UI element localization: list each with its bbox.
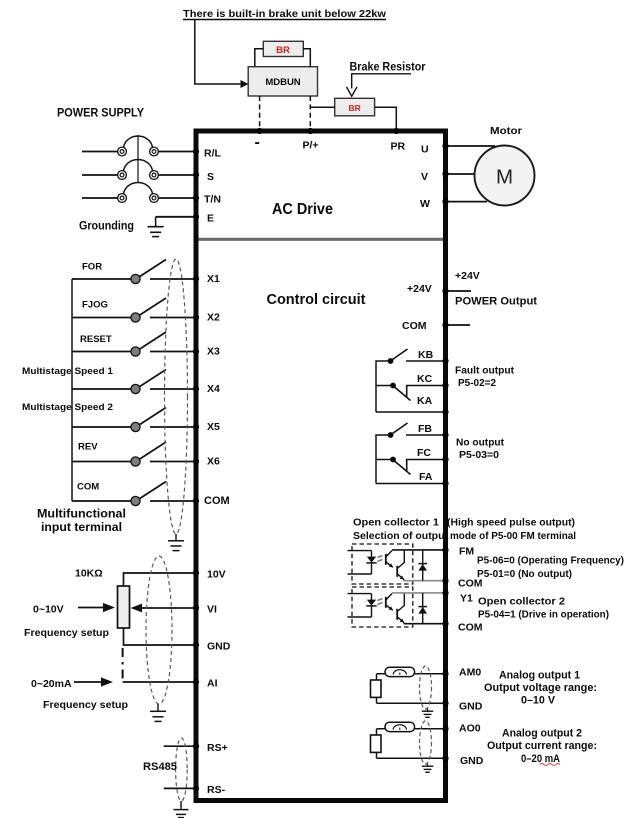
resistor BR1 (built-in brake resistor) [263, 41, 303, 56]
breaker pole 3 (T/N phase) [82, 183, 158, 203]
shield ellipse (digital input cable) [165, 259, 188, 534]
svg-text:FM: FM [459, 546, 474, 558]
ground: RS485 shield [174, 801, 189, 818]
shield ellipse (AO0 cable) [420, 721, 432, 764]
svg-text:RS485: RS485 [143, 761, 177, 773]
svg-text:T/N: T/N [204, 194, 221, 206]
terminal X1 [193, 273, 220, 285]
shield ellipse (analog input cable) [146, 556, 172, 704]
switch Multistage Speed 2 (input X5) [22, 402, 166, 432]
ground: analog input shield [150, 704, 166, 721]
svg-text:AI: AI [207, 678, 218, 690]
svg-text:VI: VI [207, 604, 217, 616]
svg-text:X1: X1 [207, 273, 220, 285]
wire: switch to terminal X3 [150, 351, 194, 353]
wire: digital input common bus [71, 279, 73, 501]
wire: breaker to R/L terminal [159, 151, 194, 153]
svg-text:PR: PR [391, 141, 406, 153]
svg-text:KA: KA [417, 395, 433, 407]
terminal R/L [193, 148, 222, 160]
svg-text:Output voltage range:: Output voltage range: [484, 682, 597, 694]
terminal KA [442, 409, 448, 415]
label: +24V POWER Output [455, 270, 537, 308]
svg-text:10KΩ: 10KΩ [75, 568, 103, 580]
meter M-AM0 [385, 667, 415, 676]
svg-text:FC: FC [417, 447, 431, 459]
svg-text:FB: FB [418, 423, 432, 435]
wire: breaker to S terminal [159, 174, 194, 176]
relay F contacts common bus [376, 435, 391, 484]
svg-text:X2: X2 [207, 311, 220, 323]
terminal RS+ [193, 742, 228, 754]
terminal GND (AM0 return) [442, 700, 448, 706]
svg-text:P5-04=1 (Drive in operation): P5-04=1 (Drive in operation) [478, 609, 609, 621]
breaker pole 1 (R/L phase) [82, 136, 158, 156]
svg-text:GND: GND [460, 755, 484, 767]
svg-text:X3: X3 [207, 345, 220, 357]
terminal FB [442, 432, 448, 438]
wire: switch to terminal X2 [150, 317, 194, 319]
wire: potentiometer bottom to GND [124, 628, 194, 645]
svg-text:X5: X5 [207, 421, 220, 433]
terminal RS- [193, 784, 226, 796]
svg-text:Analog output 2: Analog output 2 [502, 728, 582, 740]
wire: note leader arrow to MDBUN [195, 20, 249, 88]
svg-text:R/L: R/L [204, 148, 222, 160]
terminal X3 [193, 345, 220, 357]
note: built-in brake unit text [183, 8, 387, 20]
svg-text:Fault output: Fault output [455, 365, 514, 377]
resistor R-AO0 (load) [371, 735, 382, 752]
optocoupler U3 (Y1 output) [348, 587, 413, 627]
terminal COM [442, 621, 448, 627]
label: Selection of output mode of P5-00 FM terminal [353, 530, 576, 542]
wire: switch to terminal COM [150, 500, 194, 502]
node: '-' terminal dot [257, 128, 263, 134]
svg-text:FOR: FOR [82, 262, 102, 273]
label: 0~20mA with arrow [31, 677, 113, 690]
svg-text:COM: COM [458, 578, 483, 590]
svg-text:POWER SUPPLY: POWER SUPPLY [57, 108, 144, 120]
wire: U2 (FM output) collector rail to FM [392, 549, 443, 551]
label: Open collector 1 (High speed pulse output) [353, 517, 575, 529]
svg-text:Open collector 2: Open collector 2 [478, 596, 565, 608]
svg-text:KB: KB [418, 349, 434, 361]
relay contact FC (normally closed) [376, 447, 443, 475]
shield ellipse (AM0 cable) [420, 666, 432, 709]
label: Analog output 1 block [484, 670, 597, 707]
wire: switch to terminal X5 [150, 426, 194, 428]
svg-text:Multistage Speed 2: Multistage Speed 2 [22, 402, 113, 413]
terminal KB [442, 358, 448, 364]
svg-text:V: V [421, 171, 428, 183]
svg-text:Analog output 1: Analog output 1 [499, 670, 580, 682]
wire: 10V supply to potentiometer top [124, 573, 194, 586]
svg-text:0~20mA: 0~20mA [31, 678, 72, 690]
terminal T/N [193, 194, 221, 206]
wire: MDBUN top-left to BR1 [255, 49, 263, 67]
wire: MDBUN to terminal 'P/+' (dashed) [309, 96, 311, 130]
svg-text:W: W [420, 198, 430, 210]
label: Fault output P5-02=2 [455, 365, 514, 390]
wire: RS- [164, 787, 194, 789]
svg-text:P/+: P/+ [303, 140, 319, 152]
wire: MDBUN top-right to BR1 [303, 49, 310, 67]
svg-text:input terminal: input terminal [41, 522, 122, 534]
svg-text:P5-02=2: P5-02=2 [458, 377, 496, 389]
wire: U2 (FM output) emitter rail to COM [404, 580, 443, 582]
wire: MDBUN to terminal '-' (dashed) [259, 96, 261, 130]
svg-text:MDBUN: MDBUN [265, 77, 300, 88]
wire: AO0 output loop [377, 729, 444, 758]
svg-text:P5-03=0: P5-03=0 [459, 449, 499, 461]
wire: U3 (Y1 output) emitter rail to COM [404, 623, 443, 625]
terminal 10V [193, 569, 226, 581]
node: 'P/+' terminal dot [307, 128, 313, 134]
svg-text:COM: COM [77, 482, 99, 493]
svg-text:Control circuit: Control circuit [267, 292, 366, 308]
svg-text:Multifunctional: Multifunctional [37, 509, 126, 521]
terminal KC [442, 382, 448, 388]
terminal V [421, 171, 449, 183]
terminal FC [442, 456, 448, 462]
terminal Y1 [442, 590, 448, 596]
wire: AI input [123, 681, 194, 683]
svg-text:GND: GND [207, 641, 231, 653]
svg-text:Y1: Y1 [460, 593, 473, 605]
svg-text:COM: COM [458, 622, 483, 634]
diode D-U3 (Y1 output) (clamp) [418, 593, 427, 624]
terminal +24V with output stub [407, 283, 471, 295]
ground: AM0 shield [422, 709, 433, 718]
breaker pole 2 (S phase) [82, 160, 158, 180]
svg-text:BR: BR [276, 45, 290, 56]
switch FOR (input X1) [72, 260, 166, 284]
optocoupler U2 (FM output) [348, 544, 413, 584]
svg-text:GND: GND [459, 701, 483, 713]
svg-text:+24V: +24V [407, 283, 432, 295]
wire: RS+ [164, 745, 194, 747]
terminal GND [193, 641, 231, 653]
terminal GND (AO0 return) [442, 755, 448, 761]
diode D-U2 (FM output) (clamp) [418, 550, 427, 581]
switch REV (input X6) [72, 442, 166, 467]
svg-text:No output: No output [456, 437, 504, 449]
terminal AI [193, 678, 218, 690]
svg-text:Open collector 1: Open collector 1 [353, 517, 439, 529]
svg-text:E: E [207, 213, 214, 225]
potentiometer R1 10KΩ [118, 586, 130, 628]
svg-text:0~10V: 0~10V [33, 604, 64, 616]
label: 0~10V with arrow [33, 603, 115, 616]
wire: U to motor [448, 145, 495, 147]
svg-text:P5-01=0 (No output): P5-01=0 (No output) [477, 568, 572, 580]
terminal E [193, 213, 214, 225]
motor M1 [475, 146, 535, 206]
wire: AM0 output loop [377, 674, 444, 703]
label: Analog output 2 block [487, 728, 597, 766]
svg-text:0–10 V: 0–10 V [521, 695, 556, 707]
terminal COM (24V return) with stub [402, 320, 470, 332]
svg-text:AO0: AO0 [459, 723, 481, 735]
svg-text:BR: BR [348, 103, 360, 113]
shield ellipse (RS485 cable) [176, 738, 188, 801]
relay contact KC (normally closed) [376, 373, 443, 401]
svg-text:S: S [207, 171, 214, 183]
relay contact FB (normally open) [388, 423, 443, 438]
terminal X2 [193, 311, 220, 323]
wire: switch to terminal X6 [150, 461, 194, 463]
resistor BR2 (external brake resistor) [335, 98, 375, 116]
svg-text:COM: COM [402, 320, 427, 332]
svg-text:COM: COM [204, 495, 230, 507]
divider between power and control sections [199, 238, 444, 241]
wire: VI to potentiometer wiper (arrow) [131, 604, 194, 613]
wire: dash-dot link GND to AI [122, 648, 124, 680]
svg-text:-: - [255, 134, 260, 151]
svg-text:Motor: Motor [490, 125, 522, 137]
terminal AM0 [442, 671, 448, 677]
svg-text:RESET: RESET [80, 334, 112, 345]
svg-text:P5-06=0 (Operating Frequency): P5-06=0 (Operating Frequency) [477, 555, 624, 567]
svg-text:Frequency setup: Frequency setup [43, 699, 128, 711]
switch COM (input COM) [72, 482, 166, 506]
breaker linkage bar [137, 135, 139, 183]
svg-text:KC: KC [417, 373, 433, 385]
terminal U [421, 143, 449, 156]
ground: input cable shield [168, 534, 184, 551]
svg-text:Frequency setup: Frequency setup [24, 627, 109, 639]
label: Multifunctional input terminal [37, 509, 126, 535]
svg-text:10V: 10V [207, 569, 226, 581]
wire: switch to terminal X1 [150, 278, 194, 280]
resistor R-AM0 (load) [371, 680, 382, 697]
node: 'PR' terminal dot [393, 128, 399, 134]
terminal FM [442, 547, 448, 553]
terminal FA [442, 480, 448, 486]
wire: E to ground [156, 216, 194, 218]
label: No output P5-03=0 [456, 437, 504, 462]
svg-text:U: U [421, 144, 429, 156]
switch RESET (input X3) [72, 332, 166, 356]
wire: FA common [376, 471, 443, 484]
ground: protective earth [148, 217, 164, 237]
AC Drive enclosure [196, 131, 446, 801]
svg-text:0–20 mA: 0–20 mA [521, 753, 560, 765]
terminal W [420, 198, 449, 210]
terminal S [193, 171, 214, 183]
meter M-AO0 [385, 722, 415, 731]
brake unit MDBUN U1 [248, 67, 317, 96]
terminal VI [193, 604, 217, 616]
terminal X5 [193, 421, 220, 433]
wire: P/+ line to BR2 [310, 106, 334, 108]
terminal X4 [193, 383, 220, 395]
svg-text:FA: FA [419, 471, 433, 483]
svg-text:Multistage Speed 1: Multistage Speed 1 [22, 366, 114, 377]
svg-text:(High speed pulse output): (High speed pulse output) [447, 517, 575, 529]
svg-text:There is built-in brake unit: There is built-in brake unit below 22kw [183, 8, 387, 20]
svg-text:Grounding: Grounding [79, 221, 134, 233]
svg-text:POWER Output: POWER Output [455, 296, 537, 308]
svg-text:mode of P5-00 FM terminal: mode of P5-00 FM terminal [450, 530, 576, 542]
terminal X6 [193, 455, 220, 467]
svg-text:Brake Resistor: Brake Resistor [350, 62, 426, 74]
svg-text:+24V: +24V [455, 270, 480, 282]
label: Brake Resistor with leader arrow [347, 62, 426, 97]
svg-text:FJOG: FJOG [82, 300, 108, 311]
wire: V to motor [448, 173, 474, 175]
terminal AO0 [442, 726, 448, 732]
svg-text:AC Drive: AC Drive [272, 201, 333, 218]
switch Multistage Speed 1 (input X4) [22, 366, 166, 394]
svg-text:X4: X4 [207, 383, 220, 395]
wire: W to motor [448, 201, 487, 203]
svg-text:M: M [496, 166, 513, 189]
wire: KA common [376, 395, 443, 412]
svg-text:RS+: RS+ [207, 742, 228, 754]
svg-text:AM0: AM0 [459, 667, 481, 679]
terminal COM [442, 578, 448, 584]
switch FJOG (input X2) [72, 298, 166, 322]
relay K contacts common bus [376, 361, 391, 412]
ground: AO0 shield [422, 764, 433, 773]
wire: U3 (Y1 output) collector rail to Y1 [392, 592, 443, 594]
terminal COM [193, 495, 230, 507]
svg-text:Output current range:: Output current range: [487, 740, 597, 752]
wire: breaker to T/N terminal [159, 197, 194, 199]
wire: BR2 to PR terminal [375, 107, 397, 129]
wire: switch to terminal X4 [150, 388, 194, 390]
relay contact KB (normally open) [388, 349, 443, 364]
svg-text:RS-: RS- [207, 784, 226, 796]
svg-text:X6: X6 [207, 455, 220, 467]
svg-text:Selection of output: Selection of output [353, 530, 448, 542]
svg-text:REV: REV [78, 442, 98, 453]
